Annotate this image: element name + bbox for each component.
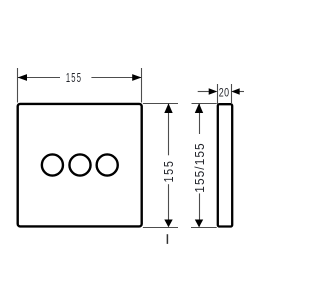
svg-text:155: 155 [162, 159, 176, 182]
svg-text:155: 155 [66, 72, 82, 85]
svg-text:155/155: 155/155 [193, 142, 207, 192]
svg-text:20: 20 [219, 86, 230, 100]
